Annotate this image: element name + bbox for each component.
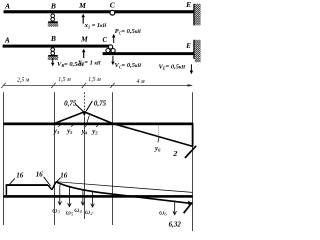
svg-text:E: E bbox=[185, 43, 191, 50]
svg-text:16: 16 bbox=[16, 171, 24, 179]
roller circles under C bbox=[106, 49, 110, 53]
load arrow X1 at M row2 bbox=[82, 49, 85, 58]
IL2 end marker bbox=[188, 201, 192, 206]
leader right 0,75 bbox=[86, 101, 92, 111]
grid line at E bbox=[192, 92, 194, 231]
svg-text:A: A bbox=[4, 36, 10, 45]
svg-text:VC= 0,5кН: VC= 0,5кН bbox=[115, 62, 142, 69]
svg-text:M: M bbox=[80, 34, 88, 43]
dimension line bbox=[4, 84, 192, 86]
IL2 rectangle left edge bbox=[5, 185, 7, 195]
svg-text:16: 16 bbox=[60, 171, 68, 179]
svg-text:0,75: 0,75 bbox=[64, 100, 77, 108]
dimension tick B bbox=[51, 83, 55, 88]
grid line at B bbox=[54, 92, 56, 225]
fixed support E wall row1 bbox=[193, 4, 200, 26]
leader left 0,75 bbox=[76, 105, 84, 112]
svg-text:2: 2 bbox=[172, 149, 177, 158]
dimension tick C bbox=[110, 83, 114, 88]
beam 2 right C-E bbox=[103, 52, 194, 55]
hinge circle C row2 bbox=[109, 45, 113, 49]
support B roller bbox=[48, 14, 58, 27]
slash leader for 6,32 bbox=[184, 202, 193, 213]
IL2 chord line bbox=[56, 182, 193, 193]
dotted ordinate y6 bbox=[157, 125, 159, 136]
beam 2 left A-C bbox=[3, 45, 112, 48]
svg-text:1,5 м: 1,5 м bbox=[88, 77, 101, 83]
IL1 rising segment B to M bbox=[54, 112, 84, 124]
svg-text:PC= 0,5кН: PC= 0,5кН bbox=[115, 28, 142, 35]
omega3 arrow bbox=[58, 185, 62, 205]
dimension arrow right bbox=[188, 84, 193, 87]
IL1 baseline bbox=[4, 123, 193, 126]
hinge C bbox=[110, 10, 115, 15]
svg-text:M: M bbox=[78, 1, 86, 10]
svg-text:1,5 м: 1,5 м bbox=[58, 77, 71, 83]
svg-text:16: 16 bbox=[36, 171, 44, 179]
leader 16 third bbox=[56, 178, 60, 183]
peak marker at M bbox=[82, 111, 86, 116]
support B roller row2 bbox=[48, 48, 58, 60]
dimension tick M bbox=[82, 83, 86, 88]
svg-text:4 м: 4 м bbox=[137, 78, 145, 85]
beam 1 bbox=[4, 10, 194, 13]
IL2 baseline bbox=[4, 195, 193, 198]
svg-text:C: C bbox=[103, 37, 108, 44]
svg-text:x1 = 1кН: x1 = 1кН bbox=[84, 22, 107, 29]
IL2 V dip at B up bbox=[52, 182, 56, 190]
svg-text:X1= 1 кН: X1= 1 кН bbox=[77, 59, 101, 66]
svg-text:B: B bbox=[50, 1, 56, 10]
svg-text:0,75: 0,75 bbox=[94, 100, 107, 108]
leader y3 bbox=[58, 123, 62, 127]
svg-text:A: A bbox=[4, 2, 10, 11]
svg-text:6,32: 6,32 bbox=[169, 221, 182, 229]
slash leader for 2 bbox=[185, 146, 196, 158]
IL2 V dip at B down bbox=[48, 185, 52, 190]
grid line at M bbox=[84, 92, 86, 111]
load arrow x1 at M bbox=[82, 14, 85, 24]
fixed support E wall row2 bbox=[193, 40, 200, 62]
reaction arrow VC down bbox=[111, 56, 114, 66]
grid line at C bbox=[112, 92, 114, 225]
grid line at A bbox=[3, 92, 5, 225]
force PC arrow up bbox=[112, 34, 115, 43]
omega2 arrow bbox=[91, 191, 95, 207]
omega5 arrow bbox=[68, 187, 72, 206]
omega4 arrow bbox=[81, 190, 85, 205]
IL1 falling segment C to E bbox=[113, 124, 193, 147]
reaction arrow VE down bbox=[190, 64, 193, 74]
svg-text:E: E bbox=[185, 0, 191, 9]
svg-text:2,5 м: 2,5 м bbox=[17, 77, 30, 83]
leader y2 bbox=[96, 123, 99, 127]
IL1 falling segment M to C bbox=[84, 112, 113, 124]
leader 16 first bbox=[9, 178, 15, 185]
IL2 decay curve bbox=[56, 182, 192, 204]
leader y5 bbox=[71, 123, 74, 127]
svg-text:B: B bbox=[50, 34, 56, 43]
dimension tick A bbox=[1, 83, 5, 88]
svg-text:VE= 0,5кН: VE= 0,5кН bbox=[159, 63, 186, 70]
leader 16 second bbox=[44, 177, 51, 186]
omega6 arrow bbox=[173, 195, 177, 215]
IL2 rectangle top A-B bbox=[6, 184, 48, 186]
reaction arrow VB down bbox=[51, 58, 54, 67]
IL1 closing ordinate at E bbox=[192, 123, 194, 147]
leader y6 bbox=[158, 137, 159, 142]
leader y4 bbox=[86, 115, 90, 127]
